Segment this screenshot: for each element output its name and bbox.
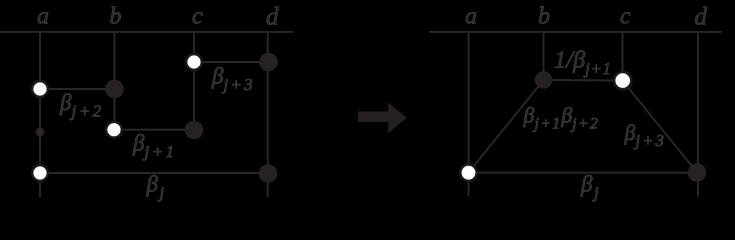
node black circle d right bbox=[688, 163, 707, 182]
wire beta_j bridge left bbox=[40, 172, 268, 174]
node black circle c2 left bbox=[185, 121, 204, 140]
wire a left bbox=[39, 32, 41, 197]
wire beta_j+2 bridge bbox=[40, 88, 115, 90]
wire b right bbox=[543, 32, 545, 80]
svg-text:c: c bbox=[192, 4, 203, 30]
node black circle d2 left bbox=[259, 164, 278, 183]
wire diagonal b-a right bbox=[469, 80, 544, 173]
wire d left bbox=[267, 32, 269, 197]
node black circle b right bbox=[535, 71, 553, 89]
node white circle a right bbox=[460, 165, 476, 181]
node white circle a1 left bbox=[32, 81, 48, 97]
wire beta_j+3 bridge bbox=[194, 61, 269, 63]
svg-text:d: d bbox=[695, 4, 708, 31]
svg-text:a: a bbox=[37, 4, 49, 30]
arrow bbox=[358, 102, 407, 133]
wire beta_j bridge right bbox=[469, 172, 698, 174]
wire d right bbox=[697, 32, 699, 197]
node white circle c right bbox=[614, 72, 631, 89]
node black circle d1 left bbox=[259, 53, 278, 72]
node small dot on wire a left bbox=[36, 128, 45, 137]
wire top line left bbox=[0, 31, 293, 33]
wire diagonal c-d right bbox=[623, 81, 698, 173]
svg-text:c: c bbox=[620, 4, 631, 30]
svg-text:d: d bbox=[266, 4, 279, 31]
wire c right bbox=[622, 32, 624, 81]
svg-text:a: a bbox=[465, 4, 477, 30]
node white circle c1 left bbox=[186, 54, 202, 70]
wire c left bbox=[193, 32, 195, 130]
svg-text:b: b bbox=[538, 4, 550, 30]
wire beta_j+1 bridge bbox=[114, 129, 194, 131]
node black circle b1 left bbox=[105, 80, 124, 99]
wire top line right bbox=[429, 31, 722, 33]
svg-text:b: b bbox=[110, 4, 122, 30]
node white circle a2 left bbox=[32, 165, 48, 181]
wire 1/beta bridge right bbox=[544, 79, 623, 82]
node white circle b2 left bbox=[106, 122, 122, 138]
wire a right bbox=[468, 32, 470, 197]
wire b left bbox=[114, 32, 116, 130]
